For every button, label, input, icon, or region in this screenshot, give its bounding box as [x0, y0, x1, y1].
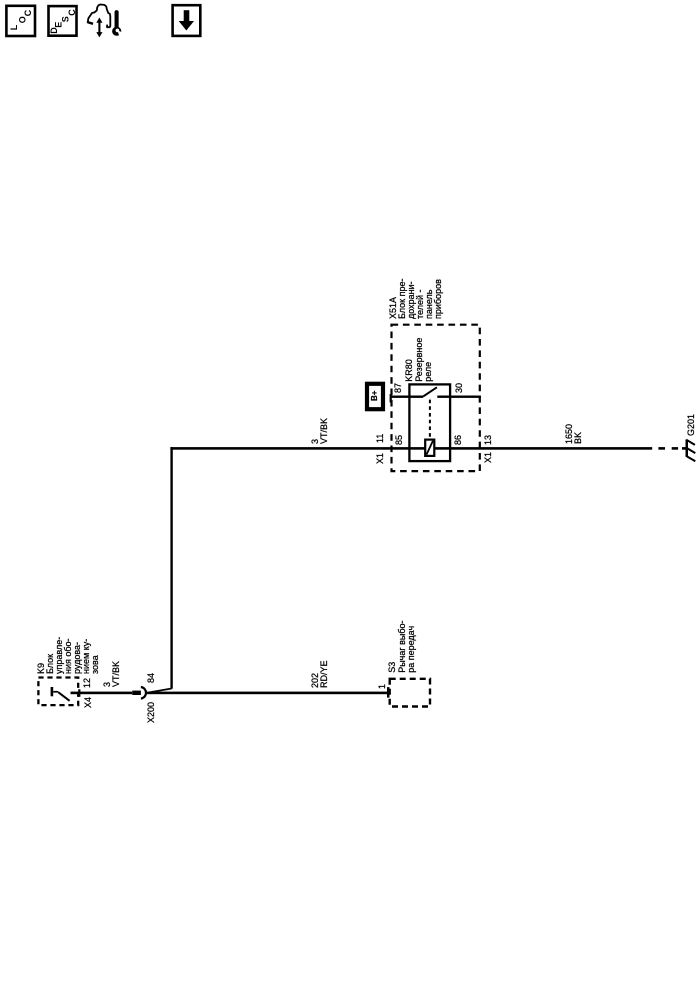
svg-text:O: O	[17, 16, 27, 23]
svg-text:S: S	[60, 16, 70, 22]
svg-text:C: C	[23, 9, 33, 16]
svg-text:C: C	[67, 9, 77, 16]
svg-text:L: L	[9, 24, 19, 30]
